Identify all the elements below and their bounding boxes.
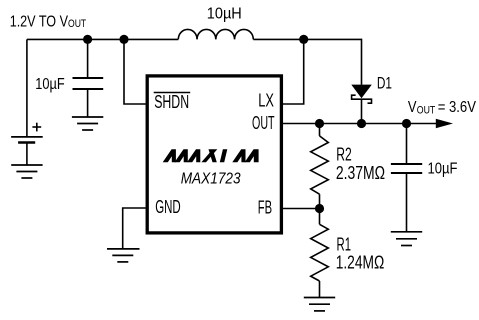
svg-text:OUT: OUT <box>417 105 436 117</box>
wire battery branch <box>26 39 28 136</box>
node dot (C2 top) <box>402 119 411 128</box>
SHDN overline <box>154 92 191 94</box>
node dot (R2 top) <box>315 119 324 128</box>
battery wire to ground <box>26 142 28 164</box>
svg-text:10µH: 10µH <box>207 5 242 22</box>
capacitor C2 plates <box>391 164 422 173</box>
output arrow <box>436 119 453 128</box>
wire SHDN branch <box>124 39 147 104</box>
wire LX pin <box>282 39 304 104</box>
svg-text:MAX1723: MAX1723 <box>181 170 241 187</box>
svg-text:SHDN: SHDN <box>154 92 189 112</box>
svg-text:FB: FB <box>258 197 272 217</box>
wire inductor to diode corner <box>253 39 361 84</box>
svg-text:R1: R1 <box>337 234 352 254</box>
battery plus sign <box>32 123 41 132</box>
ground (R1) <box>304 298 335 311</box>
svg-text:1.2V TO V: 1.2V TO V <box>10 13 69 30</box>
svg-text:2.37MΩ: 2.37MΩ <box>336 163 385 183</box>
wire cap C2 to ground <box>406 173 408 231</box>
wire OUT rail <box>282 123 437 125</box>
wire diode to OUT rail <box>361 99 363 123</box>
svg-text:10µF: 10µF <box>35 76 64 93</box>
node dot (input/C1) <box>83 35 92 44</box>
svg-text:OUT: OUT <box>252 113 275 133</box>
node dot (LX) <box>299 35 308 44</box>
wire R2 top lead <box>319 124 321 136</box>
ground (C1) <box>72 117 103 130</box>
wire GND pin <box>123 208 147 249</box>
wire cap C1 branch <box>87 39 89 78</box>
label VOUT = 3.6V <box>408 99 477 117</box>
ground (GND pin) <box>107 249 140 262</box>
ground (C2) <box>391 232 422 246</box>
wire cap C2 branch <box>406 124 408 165</box>
svg-text:D1: D1 <box>377 74 392 93</box>
wire FB pin <box>282 208 320 210</box>
node dot (SHDN branch) <box>119 35 128 44</box>
svg-text:= 3.6V: = 3.6V <box>438 99 477 116</box>
svg-text:10µF: 10µF <box>428 161 458 178</box>
wire R1 top lead <box>319 209 321 225</box>
svg-text:GND: GND <box>155 197 181 217</box>
diode D1 schottky <box>351 85 372 99</box>
resistor R1 zigzag <box>311 224 329 281</box>
node dot (diode out) <box>357 119 366 128</box>
IC U1 MAX1723 box <box>147 76 281 233</box>
ground (battery) <box>11 165 42 178</box>
wire R1 to ground <box>319 281 321 298</box>
svg-text:1.24MΩ: 1.24MΩ <box>336 253 385 273</box>
wire R2 bottom lead to FB node <box>319 194 321 208</box>
wire cap C1 to ground <box>87 89 89 117</box>
inductor L1 10uH <box>178 29 253 39</box>
battery BT1 <box>11 137 43 143</box>
capacitor C1 plates <box>73 78 104 89</box>
wire top rail <box>27 38 178 40</box>
MAXIM logo <box>163 149 259 162</box>
resistor R2 zigzag <box>311 136 329 194</box>
label 1.2V TO VOUT <box>10 13 87 30</box>
svg-text:R2: R2 <box>336 144 352 164</box>
svg-text:V: V <box>408 99 417 116</box>
node dot (FB) <box>315 204 324 213</box>
svg-text:LX: LX <box>258 91 274 111</box>
svg-text:OUT: OUT <box>68 18 86 30</box>
